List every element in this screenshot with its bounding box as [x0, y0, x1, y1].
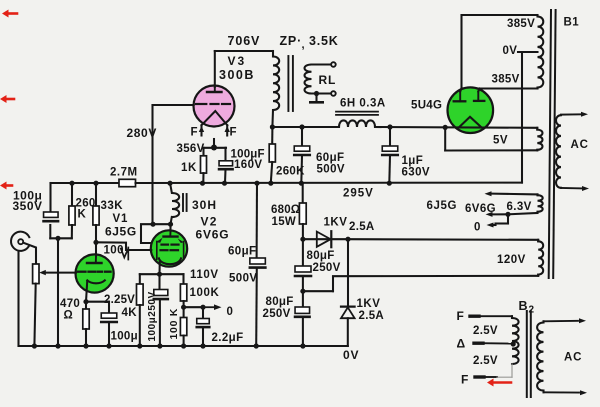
svg-text:4K: 4K [122, 307, 138, 319]
svg-text:280V: 280V [127, 126, 157, 140]
svg-text:2.2μF: 2.2μF [212, 332, 244, 344]
svg-text:2.5A: 2.5A [349, 221, 375, 233]
svg-text:6.3V: 6.3V [507, 201, 532, 213]
svg-text:F: F [230, 127, 237, 139]
svg-text:120V: 120V [497, 254, 526, 266]
svg-text:100K: 100K [190, 287, 220, 299]
svg-text:Δ: Δ [457, 337, 466, 351]
svg-text:F: F [191, 127, 198, 139]
svg-text:F: F [457, 309, 464, 323]
svg-text:6J5G: 6J5G [427, 200, 458, 212]
svg-text:0V: 0V [343, 348, 359, 362]
svg-text:0: 0 [227, 306, 233, 318]
svg-text:B1: B1 [564, 17, 580, 29]
svg-text:K: K [78, 209, 87, 221]
svg-text:60μF: 60μF [316, 152, 344, 164]
svg-text:80μF: 80μF [307, 250, 335, 262]
svg-text:V2: V2 [201, 215, 218, 229]
svg-text:630V: 630V [402, 167, 430, 179]
svg-text:AC: AC [571, 139, 589, 151]
svg-text:5V: 5V [493, 135, 508, 147]
svg-text:100 K: 100 K [168, 308, 180, 340]
svg-text:470: 470 [60, 298, 80, 310]
svg-text:100μ250V: 100μ250V [147, 291, 158, 341]
svg-text:F: F [461, 373, 468, 387]
svg-text:0: 0 [474, 222, 480, 234]
svg-text:33K: 33K [101, 200, 124, 212]
svg-text:300B: 300B [219, 68, 255, 82]
svg-text:V3: V3 [228, 54, 247, 68]
svg-text:,: , [302, 39, 305, 51]
svg-text:1KV: 1KV [324, 217, 348, 229]
svg-text:2.7M: 2.7M [110, 167, 138, 179]
svg-text:1KV: 1KV [357, 298, 381, 310]
svg-text:5U4G: 5U4G [411, 100, 442, 112]
svg-text:6H 0.3A: 6H 0.3A [340, 98, 386, 110]
svg-text:385V: 385V [507, 18, 535, 30]
svg-text:1μF: 1μF [402, 155, 424, 167]
svg-text:2.25V: 2.25V [104, 294, 135, 306]
svg-text:80μF: 80μF [266, 296, 294, 308]
svg-text:1K: 1K [181, 162, 197, 174]
svg-text:2.5V: 2.5V [473, 325, 498, 337]
svg-text:3.5K: 3.5K [309, 34, 339, 48]
svg-text:100μ: 100μ [111, 331, 138, 343]
svg-text:6V6G: 6V6G [465, 203, 496, 215]
svg-text:Ω: Ω [64, 310, 73, 322]
svg-text:2.5V: 2.5V [473, 355, 498, 367]
svg-text:V1: V1 [113, 213, 129, 225]
svg-text:250V: 250V [313, 262, 341, 274]
svg-text:500V: 500V [317, 164, 345, 176]
svg-text:6V6G: 6V6G [196, 228, 230, 242]
svg-text:385V: 385V [492, 74, 520, 86]
svg-text:500V: 500V [229, 273, 257, 285]
svg-text:250V: 250V [263, 308, 291, 320]
svg-text:ZP·: ZP· [280, 34, 303, 48]
svg-text:356V: 356V [177, 143, 205, 155]
svg-text:706V: 706V [228, 34, 261, 48]
svg-text:RL: RL [319, 73, 337, 87]
svg-text:260K: 260K [276, 166, 305, 178]
svg-text:2.5A: 2.5A [359, 310, 385, 322]
svg-text:295V: 295V [343, 188, 374, 200]
svg-text:110V: 110V [190, 269, 219, 281]
svg-text:680Ω: 680Ω [271, 204, 300, 216]
svg-text:0V: 0V [503, 45, 518, 57]
svg-text:160V: 160V [234, 159, 262, 171]
svg-text:350V: 350V [13, 199, 43, 213]
svg-text:30H: 30H [192, 198, 217, 212]
svg-text:AC: AC [564, 352, 582, 364]
svg-text:15W: 15W [272, 216, 297, 228]
svg-text:60μF: 60μF [228, 246, 256, 258]
svg-text:B: B [519, 299, 528, 313]
svg-text:6J5G: 6J5G [105, 225, 137, 239]
svg-text:2: 2 [529, 305, 535, 316]
